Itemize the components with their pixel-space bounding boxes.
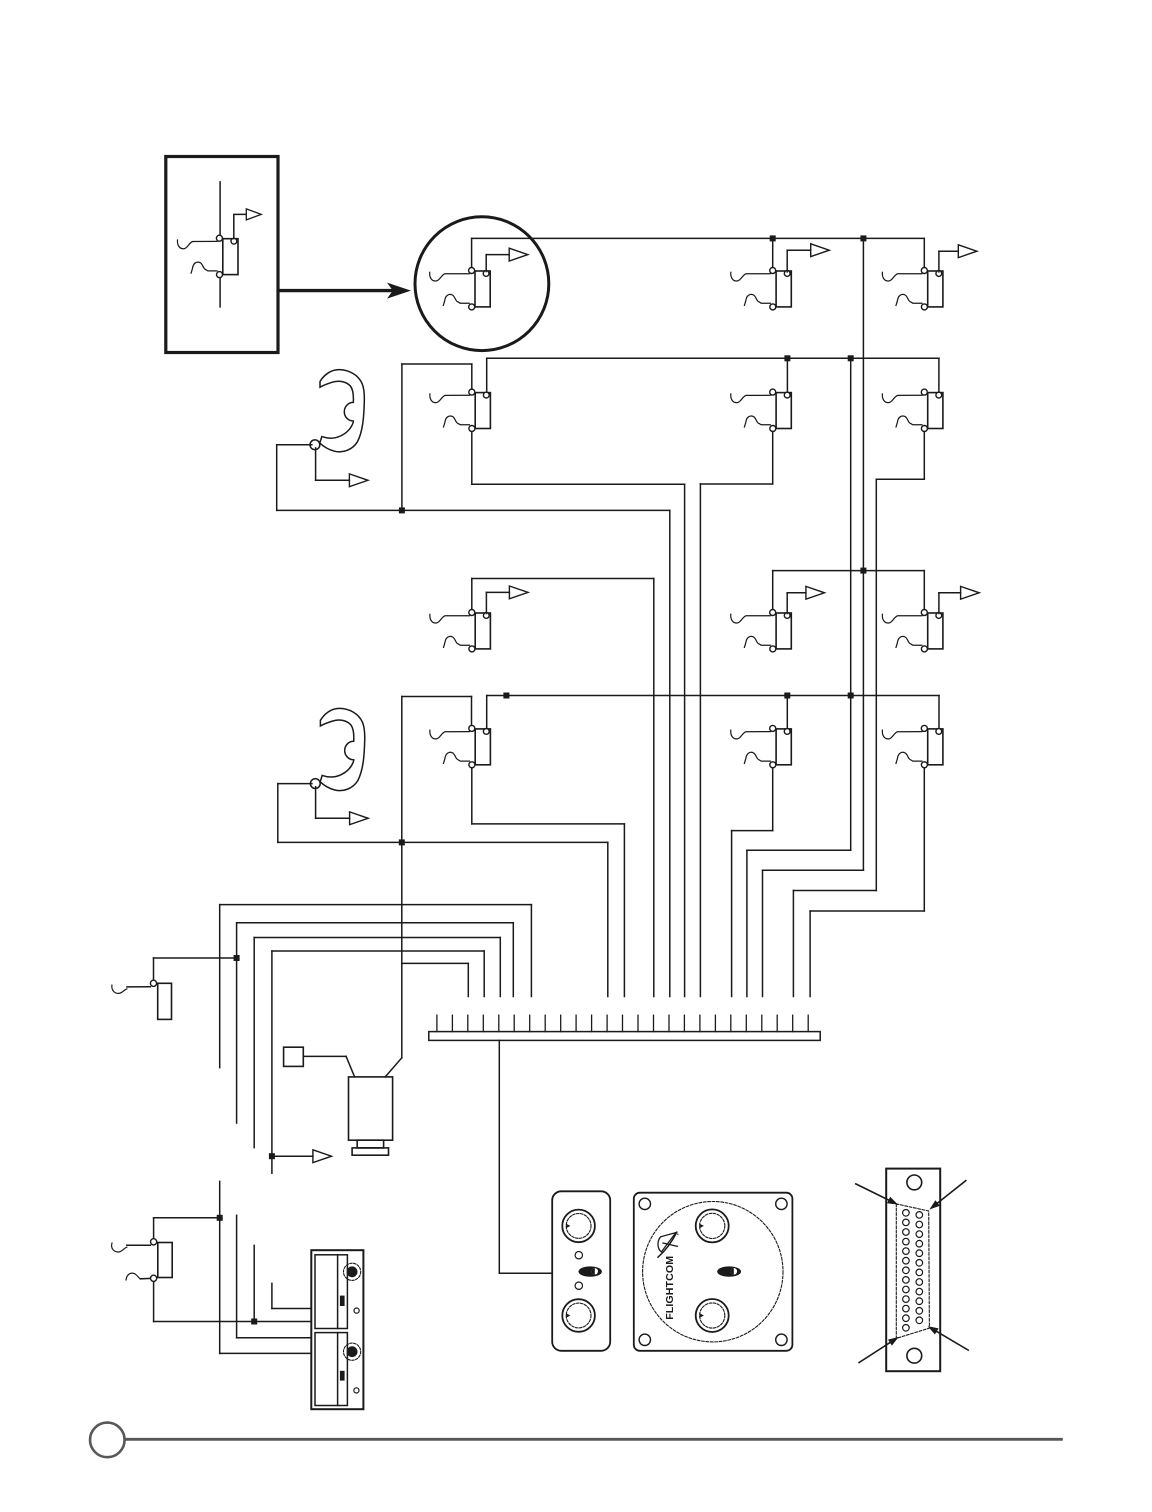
wire: hanger2 down [277,784,279,843]
wire: row2 mic bus [487,357,939,359]
arrow A5 phone out J8 [806,586,825,599]
wire: J3 tip feed [923,238,925,267]
wire: hanger1 drop to strip [669,510,671,996]
wire: J2 tip feed [772,238,774,267]
wire: J5 sleeve run [700,483,772,485]
wire: hanger2 bus [278,841,608,843]
wire: speaker jack top riser [153,1218,155,1239]
wire: A7 riser [315,448,317,480]
wire: J5 sleeve drop [772,432,774,484]
JP1 bottom connector inner [566,1303,591,1328]
arrow A3 phone out J3 [958,245,977,258]
wire: L5 drop [467,963,469,996]
wire: row2 bus drop to stair 2 [850,358,852,850]
FP1 top connector inner [700,1213,725,1238]
junction: row2 bus / J5 [784,355,790,361]
arrow A7 hanger 1 out [349,474,368,487]
wire: PTT lead [303,1055,346,1057]
JP1 screw 1 [575,1252,582,1259]
wire: to radio 1 [272,1308,311,1310]
wire: J11 lug riser [786,696,788,729]
wire: A6 riser [938,593,940,614]
wire: A9 lead [272,1155,313,1157]
wire: A5 lead [787,592,806,594]
radio 2 divider [337,1333,339,1406]
wire: L2 run [237,922,514,924]
wire: J7 tip run [472,578,654,580]
wire: stair drop 4 [792,891,794,997]
wire: J4 tip feed horiz [402,363,472,365]
wire: J10 tip feed horiz [402,696,472,698]
FP1 bottom connector inner [700,1303,725,1328]
wire: A3 riser [938,251,940,272]
radio 2 screw [354,1388,359,1393]
arrow out (box jack phone output) [246,209,261,220]
microphone M1 neck [357,1140,383,1148]
wire: J7 tip riser [471,579,473,610]
CN1 arrow TL [856,1184,898,1205]
wire: J4 sleeve run [472,483,685,485]
junction: row4 bus / J11 [784,693,790,699]
wire: J10 sleeve to strip [623,824,625,997]
wire: A2 riser [786,250,788,272]
wire: A4 riser [485,592,487,613]
wire: J12 sleeve drop [923,768,925,911]
wire: L3 left upper [253,938,255,1148]
junction: row3 bus / stair3 [860,568,866,574]
wire: L2 left lower [236,1215,238,1338]
wire: stair drop 2 [746,850,748,996]
JP1 top connector inner [566,1214,591,1239]
FP1 top connector keyway [700,1224,704,1228]
junction: row2 bus / stair2 drop [848,355,854,361]
JP1 top connector keyway [566,1224,570,1228]
wire: L1 run [220,904,532,906]
wire: mic lead down [401,842,403,1057]
wire: A1 lead [486,254,509,256]
radio stack outer case [311,1250,363,1409]
wire: L2 drop [512,923,514,997]
speaker jack P2 sleeve contact [151,1275,157,1281]
arrow A6 phone out J9 [961,586,980,599]
wire: A2 lead [787,249,811,251]
radio 1 divider [337,1255,339,1329]
JP1 top connector outer [562,1210,595,1243]
JP1 logo swoosh [579,1266,602,1276]
wire: power jack riser [153,958,155,980]
power jack P1 hook [112,985,127,993]
radio 1 faceplate [315,1255,347,1329]
wire: speaker jack bottom lead [154,1321,311,1323]
JP1 bottom connector keyway [566,1313,570,1317]
wire: A5 riser [786,593,788,614]
J4 pilot mic jack [430,389,491,431]
wire: J4 sleeve drop [471,432,473,485]
wire: J6 sleeve run [876,478,924,480]
detail box (jack wiring legend) [166,157,278,353]
wire: hanger1 lead left [277,444,312,446]
wire: L3 drop [499,938,501,997]
FP1 bottom connector keyway [700,1313,704,1317]
wire: J11 sleeve drop [772,768,774,831]
wire: box jack axis lower stub [219,275,221,307]
wire: stair run 2 [747,849,851,851]
wire: L3 left lower [253,1245,255,1321]
wire: L4 run [272,950,484,952]
hanger H2 mic hanger [310,708,364,790]
FP1 logo bird glyph [658,1232,679,1257]
power jack P1 contact [150,980,156,986]
wire: to radio 2 [237,1337,311,1339]
radio 2 faceplate [315,1333,347,1406]
wire: A7 lead [316,479,350,481]
radio 2 button [340,1371,345,1381]
power jack P1 lead line [127,986,150,988]
wire: row3 phone bus [773,570,925,572]
CN1 pins 1-13 [903,1210,910,1332]
wire: A3 lead [939,250,958,252]
footer rule [125,1438,1062,1441]
J3 passenger phone jack [882,268,943,310]
wire: strip to panel lead [499,1272,552,1274]
wire: A6 lead [939,592,961,594]
wire: L1 drop [530,905,532,997]
FP1 corner screw BR [776,1334,787,1345]
Flightcom panel FP1 plate [634,1193,793,1351]
J6 passenger mic jack [882,389,943,431]
wire: J10 lug riser [486,696,488,729]
CN1 mounting hole bottom [907,1348,922,1363]
wire: hanger2 lead left [278,783,312,785]
JP1 screw 2 [575,1282,582,1289]
wire: L3 run [254,937,500,939]
junction: row4 bus node [503,693,509,699]
zoom circle [415,217,549,351]
wire: J6 sleeve down [875,479,877,890]
wire: power jack lead [154,957,237,959]
wire: J1 tip feed [471,238,473,267]
junction: row4 bus / stair2 [848,693,854,699]
wire: speaker jack top lead [154,1217,220,1219]
wire: J6 lug riser [938,358,940,392]
wire: L2 left upper [236,923,238,1123]
CN1 arrow BL [859,1337,899,1363]
wire: box jack axis upper stub [219,182,221,235]
wire: to radio aux [220,1352,311,1354]
wire: A1 riser [485,255,487,272]
FP1 bottom connector outer [696,1299,729,1332]
footer page-number circle [90,1423,125,1458]
wire: A4 lead [486,591,509,593]
hanger H1 mic hanger [310,370,364,452]
wire: stair run 3 [763,869,864,871]
wire: J5 sleeve to strip [699,484,701,997]
junction: row1 bus / stair3 drop [860,235,866,241]
wire: mic lead-in right diagonal [385,1058,402,1077]
CN1 arrow BR [928,1326,969,1350]
junction: music node [269,1153,275,1159]
jack panel JP1 plate [552,1191,610,1351]
junction: row1 bus / J2 [770,235,776,241]
wire: J12 sleeve run [810,910,924,912]
microphone M1 base [352,1148,388,1155]
power jack P1 body [158,983,172,1019]
jack in detail box [177,235,238,277]
J1 pilot phone jack (in zoom circle) [430,268,491,310]
J12 rear mic jack 3 [882,725,943,767]
arrow A4 phone out J7 [509,586,528,599]
svg-text:FLIGHTCOM: FLIGHTCOM [665,1256,676,1320]
wire: speaker jack bottom drop [153,1281,155,1321]
J11 rear mic jack 2 [731,725,792,767]
wire: strip to panel drop [498,1040,500,1273]
wire: stair drop 3 [762,870,764,996]
wire: J4 tip feed riser [471,364,473,389]
wire: A8 riser [315,787,317,819]
wire: bus drop to stair 3 [862,238,864,870]
CN1 pins 14-25 [916,1212,923,1324]
junction: speaker bottom node [251,1319,257,1325]
microphone M1 body [349,1077,393,1140]
speaker jack P2 body [158,1243,172,1278]
wire: J7 tip to strip [653,579,655,997]
junction: hanger1 bus node [399,507,405,513]
arrow A1 phone out (zoom circle) [509,248,528,261]
wire: J10 sleeve run [472,823,625,825]
wire: mic lead-in left diagonal [346,1056,355,1077]
wire: J4 sleeve to strip [684,484,686,996]
wire: L5 run [402,962,469,964]
wire: L4 drop [483,951,485,997]
wire: box jack lug to arrow [234,214,247,238]
arrow A2 phone out J2 [811,244,830,257]
wire: J10 tip feed riser [471,697,473,726]
radio 2 knob [344,1343,361,1360]
J10 rear mic jack 1 [430,725,491,767]
radio 1 knob [344,1263,361,1280]
wire: row1 phone bus [472,237,925,239]
wire: J4 lug riser [486,358,488,392]
CN1 arrow TR [929,1181,965,1210]
wire: hanger1 bus [277,509,670,511]
JP1 bottom connector outer [562,1299,595,1332]
wire: J12 lug riser [938,696,940,729]
CN1 mounting hole top [907,1175,922,1190]
J8 rear phone jack 2 [731,610,792,652]
wire: stair run 4 [793,890,876,892]
wire: hanger1 down [276,445,278,511]
J5 copilot mic jack [731,389,792,431]
wire: J11 sleeve run [732,830,773,832]
callout arrow from box to zoom circle [279,289,393,292]
junction: hanger2 bus node [399,839,405,845]
wire: hanger2 riser [401,697,403,843]
arrow A8 hanger 2 out [350,812,369,825]
wire: L4 left lower [271,1283,273,1308]
speaker jack P2 top lead [127,1244,151,1246]
J9 rear phone jack 3 [882,610,943,652]
speaker jack P2 top hook [112,1243,127,1252]
junction: power jack node [234,955,240,961]
terminal strip TB1 pins 1-25 [437,1015,808,1031]
speaker jack P2 tip contact [151,1239,157,1245]
radio 1 screw [354,1308,359,1313]
wire: J12 sleeve to strip [809,911,811,997]
speaker jack P2 bottom hook [126,1273,140,1280]
wire: L4 left upper [271,951,273,1173]
arrow A9 music input [313,1150,332,1163]
FP1 top connector outer [696,1209,729,1242]
wire: hanger1 riser [401,364,403,510]
FP1 corner screw TL [639,1198,650,1209]
PTT switch S1 [284,1047,304,1066]
wire: J6 sleeve drop [923,432,925,480]
wire: L1 left lower [219,1181,221,1353]
J7 rear phone jack 1 [430,610,491,652]
radio 1 button [340,1296,345,1306]
FP1 round bezel [643,1202,783,1342]
junction: speaker top node [217,1215,223,1221]
wire: J8 tip feed [772,571,774,610]
CN1 D-shell outline [896,1204,929,1339]
terminal strip TB1 body [429,1032,820,1041]
wire: J9 tip feed [923,571,925,610]
speaker jack P2 bottom lead [140,1277,150,1279]
wire: row4 mic bus [487,695,939,697]
FP1 corner screw BL [639,1334,650,1345]
wire: J10 sleeve drop [471,768,473,824]
wire: hanger2 drop to strip [607,842,609,996]
wire: A8 lead [316,817,350,819]
FP1 corner screw TR [776,1198,787,1209]
J2 copilot phone jack [731,268,792,310]
wire: J11 sleeve to strip [731,831,733,997]
DB25 CN1 bracket [886,1169,940,1372]
wire: J5 lug riser [786,358,788,392]
FP1 logo swoosh mark [717,1266,741,1276]
wire: L1 left upper [219,905,221,1068]
